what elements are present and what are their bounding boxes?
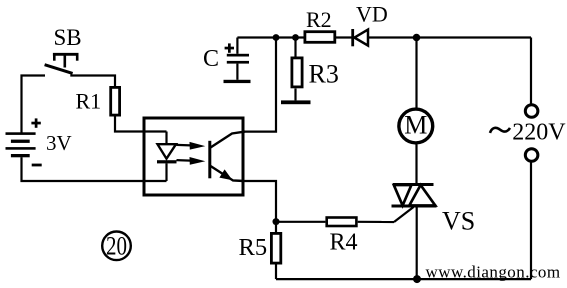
wire terminal 2 to bottom rail bbox=[530, 162, 532, 279]
wire node B to R4 bbox=[276, 221, 325, 223]
wire R5 to bottom rail bbox=[275, 265, 277, 280]
svg-text:C: C bbox=[203, 46, 219, 72]
triac gate lead bbox=[394, 207, 414, 222]
wire left top (battery + to switch) bbox=[22, 76, 46, 134]
node R3 junction dot bbox=[292, 34, 299, 41]
node A junction dot bbox=[273, 34, 280, 41]
wire top rail bbox=[237, 36, 531, 38]
wire triac to bottom rail bbox=[416, 206, 418, 279]
switch SB pushbutton actuator bbox=[53, 54, 79, 67]
svg-text:20: 20 bbox=[106, 232, 127, 261]
triac VS bottom bar bbox=[392, 205, 437, 208]
svg-text:R1: R1 bbox=[76, 89, 102, 114]
optocoupler light arrow 1 bbox=[177, 142, 206, 150]
wire R4 to gate bbox=[358, 221, 394, 223]
optocoupler LED bbox=[157, 132, 177, 182]
svg-text:R3: R3 bbox=[309, 60, 339, 89]
terminal circle 2 bbox=[525, 149, 538, 162]
diode VD triangle bbox=[354, 30, 368, 46]
wire top rail to terminal 1 bbox=[530, 38, 532, 105]
node motor branch junction dot bbox=[413, 34, 421, 42]
wire switch to R1 bbox=[70, 76, 115, 87]
svg-text:www.diangon.com: www.diangon.com bbox=[426, 263, 561, 282]
resistor R5 bbox=[271, 233, 280, 263]
svg-text:VD: VD bbox=[356, 2, 388, 27]
optocoupler U box bbox=[144, 118, 243, 195]
wire battery - to LED cathode bbox=[22, 157, 167, 181]
triac VS top bar bbox=[393, 183, 434, 186]
svg-text:3V: 3V bbox=[46, 131, 72, 155]
capacitor C lead bbox=[236, 38, 238, 54]
resistor R1 bbox=[111, 87, 120, 115]
wire R3 top lead bbox=[294, 38, 296, 57]
capacitor C plates bbox=[227, 54, 249, 64]
resistor R4 bbox=[327, 218, 357, 227]
triac VS left triangle bbox=[394, 185, 412, 206]
wire collector out to node A vertical bbox=[244, 38, 276, 132]
wire emitter out down to node B bbox=[244, 181, 276, 232]
battery plus sign bbox=[31, 118, 40, 127]
svg-text:R4: R4 bbox=[330, 230, 358, 256]
triac VS right triangle bbox=[409, 185, 435, 206]
svg-text:R5: R5 bbox=[239, 234, 268, 261]
optocoupler phototransistor base bar bbox=[208, 141, 211, 179]
wire R3 bottom lead bbox=[294, 89, 296, 101]
svg-text:SB: SB bbox=[54, 25, 82, 50]
battery 3V bbox=[6, 132, 36, 157]
capacitor C end bar bbox=[224, 80, 251, 83]
node B junction dot bbox=[273, 218, 280, 225]
optocoupler light arrow 2 bbox=[177, 157, 206, 165]
svg-text:VS: VS bbox=[442, 207, 475, 236]
optocoupler phototransistor collector bbox=[211, 132, 246, 148]
svg-text:R2: R2 bbox=[306, 7, 332, 32]
optocoupler phototransistor emitter with arrow bbox=[211, 166, 245, 181]
wire motor to triac bbox=[415, 144, 417, 184]
resistor R3 bbox=[292, 58, 302, 87]
node bottom junction dot bbox=[413, 275, 421, 283]
switch SB blade bbox=[45, 65, 73, 74]
wire top rail to motor bbox=[415, 38, 417, 108]
wire R1 to optocoupler LED anode bbox=[115, 117, 167, 132]
label ~220V tilde bbox=[490, 128, 510, 133]
ground bar below R3 bbox=[281, 100, 311, 104]
battery minus sign bbox=[32, 164, 42, 167]
wire bottom rail bbox=[276, 278, 531, 280]
svg-text:M: M bbox=[404, 111, 427, 140]
resistor R2 bbox=[305, 32, 335, 43]
motor M circle bbox=[399, 109, 433, 143]
capacitor plus sign bbox=[225, 43, 234, 52]
svg-text:220V: 220V bbox=[512, 120, 566, 146]
terminal circle 1 bbox=[525, 105, 538, 118]
diode VD cathode bar bbox=[351, 29, 354, 46]
capacitor C bottom lead bbox=[236, 64, 238, 80]
figure number circle 20 bbox=[102, 232, 131, 261]
